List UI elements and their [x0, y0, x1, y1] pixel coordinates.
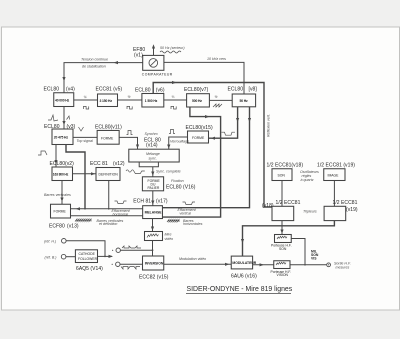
svg-text:ECL80(v15): ECL80(v15) — [186, 125, 213, 131]
svg-text:1/2 ECC81 (v19): 1/2 ECC81 (v19) — [317, 163, 355, 169]
wire tripler image down left into modulateur top — [243, 221, 335, 257]
wire into inversion left — [120, 263, 143, 265]
wire inversion to modulateur — [164, 263, 232, 265]
svg-text:SON: SON — [279, 247, 287, 251]
svg-text:ECC81 (v5): ECC81 (v5) — [96, 87, 123, 93]
svg-text:Fixation: Fixation — [171, 179, 184, 183]
divider V8 ECL80 — [228, 87, 258, 107]
wire SON osc down to tripler — [281, 181, 283, 207]
wire mire box down to inversion — [152, 241, 154, 257]
svg-text:20 475 Hz: 20 475 Hz — [54, 135, 69, 139]
svg-text:1/2 ECC81: 1/2 ECC81 — [276, 200, 301, 206]
wire ref B into cathode follower — [66, 256, 76, 258]
svg-text:163 800 Hz: 163 800 Hz — [53, 172, 69, 176]
svg-text:½: ½ — [215, 95, 218, 99]
wire bus into forme v13 and melange upper — [71, 208, 143, 210]
svg-text:mesures: mesures — [336, 266, 350, 270]
svg-text:Tripleurs: Tripleurs — [303, 210, 317, 214]
wire v15 output into melange sync top — [169, 137, 188, 149]
divider V5 ECC81 — [96, 87, 123, 107]
mire video box — [145, 232, 174, 241]
wire comparateur top arrow 50Hz — [153, 47, 155, 57]
svg-text:Modulation vidéo: Modulation vidéo — [179, 257, 206, 261]
svg-text:DEFINITION: DEFINITION — [99, 173, 119, 177]
svg-text:(v4): (v4) — [66, 87, 75, 93]
terminal ref H circle — [44, 239, 66, 244]
divider V2 ECL80 — [50, 161, 75, 181]
glyph step waveform left of v3 — [38, 151, 47, 155]
svg-text:1/2 ECC81(v18): 1/2 ECC81(v18) — [267, 163, 304, 169]
shaper V15 ECL80 FORME — [186, 125, 213, 143]
svg-text:SIDER-ONDYNE - Mire 819 lignes: SIDER-ONDYNE - Mire 819 lignes — [187, 286, 293, 293]
svg-text:sync.: sync. — [149, 157, 157, 161]
wire v4 down to v3 — [63, 107, 65, 130]
glyph pulse after v11 — [127, 131, 133, 135]
svg-text:(v17): (v17) — [156, 199, 168, 205]
video inverter ECC82 v15 INVERSION — [139, 256, 169, 280]
glyph sync waveform — [126, 170, 145, 174]
wire branch to long feedback vertical — [153, 83, 272, 208]
svg-text:ECC82 (v15): ECC82 (v15) — [139, 274, 169, 280]
oscillator V3 ECL80 master — [44, 124, 76, 145]
wire modulateur output to HF terminal — [253, 264, 327, 266]
svg-text:VIS: VIS — [311, 256, 317, 260]
svg-text:(réf. B.): (réf. B.) — [45, 256, 57, 260]
divider V7 ECL80 — [184, 87, 209, 107]
oscillator SON 1/2 ECC81 v18 — [267, 163, 304, 181]
wire forme v13 lower output to melange — [71, 215, 143, 217]
svg-text:6AQ5 (V14): 6AQ5 (V14) — [76, 266, 103, 272]
wire porteuse son to output line — [291, 239, 305, 265]
terminal video input minus — [112, 262, 120, 266]
op-amp U1 comparateur EF80 (v1) — [133, 47, 173, 76]
svg-text:CATHODE: CATHODE — [79, 252, 96, 256]
svg-text:500 Hz: 500 Hz — [192, 99, 202, 103]
cathode follower 6AQ5 v14 — [75, 250, 103, 272]
video mixer ECH81 v17 MELANGE — [133, 199, 168, 219]
glyph waveform below — [121, 267, 140, 270]
wire ref H to cathode follower output node — [66, 241, 105, 257]
svg-text:ECL80: ECL80 — [135, 88, 151, 94]
wire melange down to mire box — [152, 219, 154, 232]
definition stage V12 ECC81 — [90, 161, 125, 181]
glyph V waveform and top signal — [79, 127, 84, 131]
shaper V11 ECL80 FORME — [95, 124, 122, 144]
wire v2 down to forme v13 — [61, 181, 63, 205]
svg-text:Verrouillage: Verrouillage — [170, 140, 189, 144]
glyph squiggle below — [75, 219, 91, 222]
svg-text:ECL80: ECL80 — [228, 87, 244, 93]
svg-text:⅓: ⅓ — [172, 95, 175, 99]
wire tripler son down to porteuse son — [281, 221, 283, 235]
svg-text:FORME: FORME — [192, 136, 205, 140]
svg-text:vertical: vertical — [180, 211, 192, 215]
svg-text:PALIER: PALIER — [148, 186, 160, 190]
svg-text:50 Hz: 50 Hz — [240, 99, 249, 103]
wire v3 down to v2 — [55, 145, 57, 168]
porteuse vision box — [271, 261, 292, 277]
glyph v-blank pulse above right bus — [183, 202, 196, 205]
svg-text:Tension continue: Tension continue — [81, 58, 108, 62]
svg-text:IMAGE: IMAGE — [328, 173, 340, 177]
glyph sawtooth left of v4-v3 wire — [48, 115, 58, 121]
svg-text:à quartz: à quartz — [301, 178, 314, 182]
tripler SON 1/2 ECC81 v18 — [262, 200, 301, 221]
svg-text:FORME: FORME — [54, 210, 67, 214]
svg-text:horizontales: horizontales — [183, 222, 203, 226]
svg-text:(v19): (v19) — [346, 207, 358, 213]
svg-text:10 kHz vers: 10 kHz vers — [207, 57, 226, 61]
terminal ref B circle — [45, 254, 66, 259]
wire cathode follower output — [98, 255, 113, 257]
svg-text:SON: SON — [278, 173, 286, 177]
svg-text:1 500 Hz: 1 500 Hz — [145, 99, 158, 103]
wire v3 elbow down to forme v13 line — [66, 145, 85, 209]
glyph waveform above — [122, 246, 141, 248]
modulator 6AU6 v16 — [231, 256, 257, 279]
svg-text:ECC 81: ECC 81 — [90, 161, 108, 167]
svg-text:(réf. H.): (réf. H.) — [44, 240, 56, 244]
wire v7 down right around to melange right lower — [162, 107, 220, 217]
svg-text:et définition: et définition — [99, 222, 117, 226]
wire IMAGE osc down to tripler — [333, 181, 335, 207]
svg-text:(v14): (v14) — [146, 142, 158, 148]
wire palier down into melange — [152, 191, 154, 206]
svg-text:ECF80: ECF80 — [49, 224, 65, 230]
wire v6 to v7 — [164, 99, 187, 101]
svg-text:FORME: FORME — [101, 137, 114, 141]
svg-text:ECL80(v7): ECL80(v7) — [184, 87, 209, 93]
wire v4 to v5 — [74, 99, 98, 101]
glyph pulse above v15 output — [169, 130, 175, 134]
svg-text:(v13): (v13) — [67, 224, 79, 230]
svg-text:Sync. complète: Sync. complète — [156, 170, 181, 174]
svg-text:ECL80 (V16): ECL80 (V16) — [166, 184, 196, 190]
svg-text:ECL80(v2): ECL80(v2) — [50, 161, 75, 167]
glyph squiggle below right — [167, 220, 179, 223]
svg-text:3 150 Hz: 3 150 Hz — [100, 99, 113, 103]
wire melange sync output legs — [139, 162, 158, 167]
node label MIL SON VIS — [311, 249, 319, 260]
svg-text:MELANGE: MELANGE — [145, 211, 163, 215]
wire v2 to v12 — [73, 173, 97, 175]
oscillator IMAGE 1/2 ECC81 v19 — [317, 163, 355, 181]
wire v8 bottom-left down into v15 right edge — [209, 107, 238, 138]
svg-text:VISION: VISION — [277, 273, 289, 277]
svg-text:½: ½ — [128, 95, 131, 99]
svg-text:Synchro: Synchro — [145, 132, 158, 136]
svg-text:ECL80(v11): ECL80(v11) — [95, 124, 122, 130]
svg-text:ECH 81: ECH 81 — [133, 199, 151, 205]
blanking shaper V13 ECF80 FORME — [49, 204, 79, 229]
glyph blanking pulse above bus — [115, 201, 127, 204]
wire comparateur output 10kHz to v8 top — [164, 62, 244, 94]
svg-text:de stabilisation: de stabilisation — [82, 65, 106, 69]
svg-text:¼: ¼ — [84, 95, 87, 99]
svg-text:Barres verticales: Barres verticales — [44, 193, 71, 197]
svg-text:(v6): (v6) — [156, 88, 165, 94]
svg-text:INVERSION: INVERSION — [145, 262, 164, 266]
divider V4 ECL80 — [44, 87, 76, 107]
wire v5 to v6 — [118, 99, 142, 101]
svg-text:vidéo: vidéo — [165, 237, 174, 241]
porteuse son box — [271, 235, 292, 251]
terminal sortie HF — [327, 262, 351, 270]
svg-text:40 000 Hz: 40 000 Hz — [55, 98, 70, 102]
svg-text:Réflexion vert.: Réflexion vert. — [267, 114, 271, 137]
wire v11 output into melange sync top — [119, 137, 137, 149]
pedestal shaper forme du palier ECL80 v16 — [142, 177, 195, 191]
tripler IMAGE 1/2 ECC81 v19 — [324, 200, 358, 221]
svg-text:Mélange: Mélange — [146, 152, 160, 156]
terminal video input plus — [112, 248, 120, 252]
wire v3 to v11 — [73, 136, 97, 138]
wire v12 down to horizontal bus — [108, 181, 110, 209]
svg-text:[v8]: [v8] — [249, 87, 258, 93]
svg-text:1/2 ECC81: 1/2 ECC81 — [333, 200, 358, 206]
wire v8 bottom-right down to melange right upper — [162, 107, 249, 208]
svg-text:(v1): (v1) — [134, 53, 143, 59]
wire v7 to v8 — [209, 99, 232, 101]
svg-text:FOLLOWER: FOLLOWER — [78, 257, 98, 261]
svg-text:(v12): (v12) — [113, 161, 125, 167]
svg-text:COMPARATEUR: COMPARATEUR — [142, 72, 173, 76]
svg-text:6AU6 (v16): 6AU6 (v16) — [231, 273, 257, 279]
glyph notch pulse above v15 input wire — [222, 132, 236, 135]
wire video input to inversion top junction — [120, 249, 152, 251]
divider V6 ECL80 — [135, 88, 165, 108]
svg-text:Top signal: Top signal — [77, 139, 93, 143]
svg-text:horizontal: horizontal — [113, 212, 129, 216]
svg-text:ECL80: ECL80 — [44, 87, 60, 93]
svg-text:50 Hz (secteur): 50 Hz (secteur) — [160, 46, 185, 50]
wire stabilisation line comparateur to v4 — [64, 63, 143, 93]
sync mixer box ECL80 v14 melange sync — [129, 138, 179, 163]
